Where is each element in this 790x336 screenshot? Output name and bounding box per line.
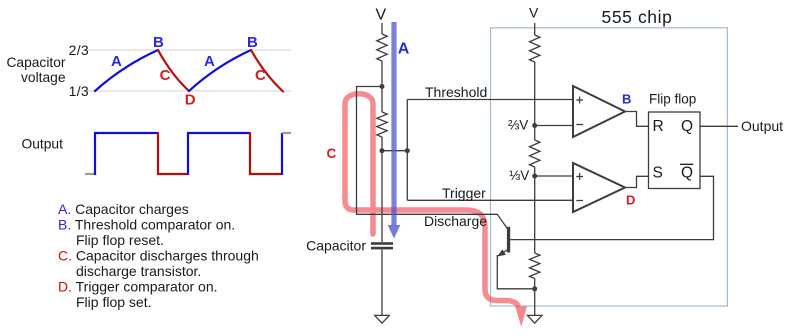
svg-text:discharge transistor.: discharge transistor. [76,263,201,279]
svg-text:C: C [255,67,266,84]
svg-text:B. Threshold comparator on.: B. Threshold comparator on. [58,217,235,233]
svg-text:V: V [376,7,387,24]
svg-text:⅓V: ⅓V [509,168,529,183]
svg-text:A: A [204,53,215,70]
svg-text:C: C [327,146,337,161]
svg-text:Discharge: Discharge [424,213,487,229]
svg-text:1/3: 1/3 [69,83,89,99]
svg-text:Flip flop reset.: Flip flop reset. [76,232,164,248]
svg-text:Q: Q [681,165,693,182]
svg-text:Flip flop: Flip flop [649,92,696,107]
svg-text:Flip flop set.: Flip flop set. [76,294,151,310]
svg-text:B: B [622,91,631,106]
svg-text:A: A [398,41,410,58]
svg-text:D: D [185,92,196,109]
svg-text:S: S [653,165,663,182]
svg-text:R: R [653,118,664,135]
svg-text:V: V [529,5,539,21]
svg-text:B: B [247,34,258,51]
svg-text:D: D [626,192,635,207]
svg-text:Capacitor: Capacitor [306,238,366,254]
svg-text:D. Trigger comparator on.: D. Trigger comparator on. [58,279,218,295]
svg-text:C: C [160,67,171,84]
svg-text:Output: Output [741,118,783,134]
svg-text:C. Capacitor discharges throug: C. Capacitor discharges through [58,248,259,264]
svg-text:voltage: voltage [21,70,66,85]
svg-text:A: A [111,53,122,70]
svg-text:⅔V: ⅔V [508,118,528,133]
svg-text:Threshold: Threshold [425,84,487,100]
svg-text:Output: Output [22,137,64,152]
svg-text:2/3: 2/3 [69,42,89,58]
svg-text:A. Capacitor charges: A. Capacitor charges [58,201,189,217]
svg-text:555 chip: 555 chip [602,7,673,27]
svg-text:Capacitor: Capacitor [6,55,65,70]
svg-text:B: B [153,34,164,51]
svg-text:Q: Q [681,118,693,135]
svg-text:Trigger: Trigger [442,185,486,201]
